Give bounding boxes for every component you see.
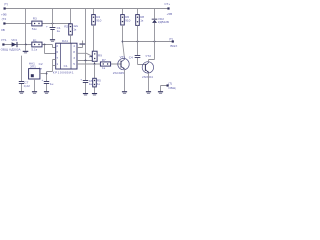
node junction x46.5 y73.5: [46, 73, 48, 75]
svg-text:+: +: [80, 77, 82, 81]
wire R4 down to pot: [93, 25, 95, 51]
wire stub to mid ground: [25, 45, 27, 51]
wire vertical x26.5: [25, 9, 27, 45]
ground bottom right: [158, 91, 163, 93]
svg-text:(Т): (Т): [4, 2, 8, 6]
wire vertical x137.5 rail to R8: [137, 9, 139, 15]
svg-text:VT1: VT1: [120, 55, 126, 59]
svg-text:0В: 0В: [1, 28, 5, 32]
capacitor C5: [80, 77, 93, 86]
node junction x154.5: [154, 41, 156, 43]
diode VD2: [152, 17, 169, 24]
svg-text:+: +: [42, 78, 44, 82]
capacitor C4: [129, 55, 141, 59]
wire pot bottom: [94, 61, 96, 64]
svg-text:0,22: 0,22: [24, 84, 30, 88]
wire IC right pin1 row: [77, 41, 83, 48]
node junction R5 top: [94, 63, 96, 65]
resistor R4: [92, 15, 102, 25]
resistor R6: [121, 15, 131, 25]
svg-text:DA1: DA1: [62, 39, 68, 43]
svg-text:VD1: VD1: [11, 38, 17, 42]
node +5V right terminal: [167, 7, 169, 9]
svg-text:+9В: +9В: [1, 12, 7, 16]
ground R5: [92, 93, 97, 95]
svg-text:2: 2: [56, 44, 58, 48]
wire vertical x21.5: [21, 56, 23, 92]
svg-text:R9: R9: [98, 53, 102, 57]
svg-text:8: 8: [73, 50, 75, 54]
resistor R7: [100, 58, 110, 70]
wire C5 column: [85, 61, 87, 94]
svg-text:+5В: +5В: [167, 12, 173, 16]
wire VT1 emitter to ground: [124, 69, 126, 91]
ground below C1: [50, 39, 55, 41]
wire x154.5 rail to VD2: [154, 9, 156, 19]
svg-text:6: 6: [56, 50, 58, 54]
ground VT2: [146, 91, 151, 93]
wire vertical x52.5 from rail to C1: [52, 9, 54, 28]
wire input line 1 (y44.5): [4, 45, 56, 48]
svg-text:ЗП1: ЗП1: [30, 65, 36, 69]
transistor VT2: [142, 54, 154, 79]
wire vertical x122.5 rail to R6: [122, 9, 124, 15]
svg-text:R2: R2: [64, 25, 68, 29]
buzzer HA1 box: [29, 61, 40, 79]
svg-text:(Т): (Т): [169, 37, 173, 41]
node junction x44.5 y44.5: [44, 44, 46, 46]
svg-text:СТ+: СТ+: [164, 2, 170, 6]
wire VT2 emitter to ground: [148, 73, 150, 91]
svg-text:1н: 1н: [50, 82, 54, 86]
ground mid-left: [23, 51, 29, 53]
wire R8 down to C4: [137, 25, 139, 55]
wire VD2 down to out line: [154, 23, 156, 42]
svg-text:ОБЩ: ОБЩ: [1, 48, 8, 52]
wire buzzer right pin: [40, 73, 47, 75]
bar on pin1: [79, 44, 86, 45]
node junction C5 top: [85, 60, 87, 62]
svg-text:1н: 1н: [89, 82, 93, 86]
ground C5: [83, 93, 88, 95]
diode VD1: [9, 38, 21, 51]
node junction x26.5 y44.5: [25, 44, 27, 46]
wire vertical x70.5 rail to R2: [70, 9, 72, 24]
capacitor C1 polarized: [46, 24, 61, 33]
wire top +9V rail: [5, 8, 169, 10]
svg-text:R1: R1: [33, 39, 37, 43]
svg-text:910: 910: [125, 19, 130, 23]
wire buzzer bottom pin: [34, 79, 36, 91]
svg-text:2SC945: 2SC945: [113, 71, 124, 75]
ground x21.5: [19, 91, 24, 93]
svg-text:УТ2: УТ2: [145, 54, 151, 58]
wire C1 to ground: [52, 30, 54, 39]
node output terminal: [172, 40, 174, 42]
potentiometer: [89, 51, 102, 61]
resistor R3: [32, 17, 42, 31]
wire x44.5 down to pin2: [45, 45, 56, 54]
ground x46.5: [44, 91, 49, 93]
svg-text:С4: С4: [129, 55, 133, 59]
wire IC right pin4 row: [77, 63, 121, 65]
node bottom right terminal: [167, 84, 169, 86]
svg-text:7: 7: [56, 56, 58, 60]
op IC DA1 KR1006VI1: [53, 39, 77, 74]
wire vertical x93.5 rail to R4: [93, 9, 95, 15]
wire VT2 collector up: [149, 42, 155, 62]
resistor R2: [64, 24, 78, 35]
svg-text:КР1006ВИ1: КР1006ВИ1: [53, 71, 74, 75]
wire IC right pin3 row: [77, 61, 95, 65]
svg-text:910: 910: [96, 19, 101, 23]
svg-text:3: 3: [73, 56, 75, 60]
wire R2 bottom to IC: [70, 35, 72, 43]
svg-text:5: 5: [73, 62, 75, 66]
wire IC right pin2 row to pot wiper: [77, 53, 92, 56]
svg-text:С1: С1: [64, 64, 68, 68]
node junction x52.5 y23.5: [52, 23, 54, 25]
svg-text:R7: R7: [102, 58, 106, 62]
svg-text:+: +: [46, 24, 48, 28]
resistor R8: [136, 15, 145, 26]
wire IC left pins 3,4: [47, 60, 56, 72]
ground buzzer: [32, 91, 37, 93]
wire down to R5: [94, 64, 96, 93]
svg-text:(Т2: (Т2: [2, 17, 7, 21]
capacitor C7 on x21.5: [19, 80, 30, 88]
wire rail drop x85.5: [85, 9, 87, 61]
wire input line 2 (y23.5): [5, 23, 71, 25]
wire R6 down to Q1 collector: [123, 25, 125, 59]
wire output line y41.5: [123, 41, 173, 43]
wire x46.5 down through cap: [46, 72, 48, 92]
svg-text:1: 1: [56, 62, 58, 66]
node +9V left terminal: [4, 7, 6, 9]
svg-text:КД503А: КД503А: [9, 48, 21, 52]
capacitor on x46.5: [42, 78, 54, 86]
wire bottom right terminal: [161, 86, 168, 92]
node junction x137.5: [137, 41, 139, 43]
svg-text:(Т): (Т): [168, 81, 172, 85]
svg-text:ОБЩ: ОБЩ: [168, 86, 175, 90]
svg-text:2N3904: 2N3904: [142, 75, 153, 79]
svg-text:5,1к: 5,1к: [31, 47, 37, 51]
svg-text:1н: 1н: [57, 29, 61, 33]
node input terminal 1: [2, 43, 4, 45]
svg-text:R3: R3: [33, 17, 37, 21]
svg-text:УТ1: УТ1: [1, 38, 7, 42]
svg-text:КД522Б: КД522Б: [158, 20, 169, 24]
svg-text:51к: 51к: [32, 27, 37, 31]
node junction out line left: [122, 41, 124, 43]
resistor R1: [31, 39, 42, 52]
wire C4 to VT2 base: [138, 58, 146, 65]
resistor R5: [93, 78, 101, 87]
transistor VT1: [113, 55, 129, 75]
ground VT1: [122, 91, 127, 93]
node input terminal T2: [3, 22, 5, 24]
svg-text:4: 4: [73, 44, 75, 48]
svg-text:С2: С2: [39, 62, 43, 66]
svg-text:ВЫХ: ВЫХ: [170, 44, 177, 48]
